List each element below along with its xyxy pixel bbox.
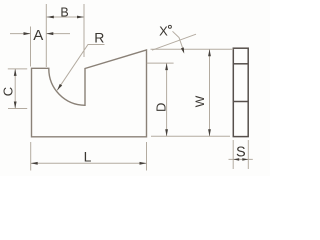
dim A/B shared extension line [45, 4, 47, 67]
svg-text:S: S [236, 144, 246, 160]
dim L arrowhead right [140, 162, 147, 165]
dim W: line [209, 49, 211, 136]
dim A arrowhead right (points left) [46, 32, 53, 35]
dim S: left extension line [232, 140, 234, 169]
R leader line [57, 45, 104, 91]
top extension line from peak to side view [151, 48, 234, 50]
X angle reference line [152, 34, 196, 50]
dim C arrowhead bottom (points down) [14, 102, 17, 109]
dim C: bottom extension line [8, 108, 27, 110]
dim W arrowhead bottom [208, 129, 211, 136]
dim A: left arrow tail [10, 33, 31, 35]
dim B arrowhead right [77, 16, 84, 19]
bottom baseline extension line [151, 135, 230, 137]
dim D: top extension line [147, 62, 174, 64]
svg-text:C: C [1, 87, 16, 96]
dim C: top extension line [8, 68, 27, 70]
main part outline [32, 50, 147, 137]
svg-text:L: L [84, 148, 92, 164]
dim B: line [46, 16, 84, 18]
side view rectangle [233, 48, 248, 136]
dim S: right extension line [247, 140, 249, 169]
X angle leader [173, 31, 183, 48]
svg-text:R: R [94, 30, 104, 46]
dim A: left extension line [30, 27, 32, 67]
svg-text:B: B [60, 6, 68, 20]
X angle leader arrowhead [181, 47, 184, 53]
dim C arrowhead top (points up) [14, 69, 17, 76]
side view divider 1 [233, 63, 248, 65]
dim S arrowhead right [242, 158, 248, 161]
dim C: line [14, 69, 16, 109]
arrowheads [14, 16, 249, 165]
dim L: right extension line [146, 142, 148, 171]
dim D arrowhead bottom [165, 129, 168, 136]
svg-text:A: A [33, 27, 43, 44]
dim W arrowhead top [208, 49, 211, 56]
R leader arrowhead [57, 84, 62, 90]
svg-text:W: W [193, 95, 207, 107]
dim D arrowhead top [165, 63, 168, 70]
dim D: line [166, 63, 168, 136]
svg-text:X: X [159, 24, 168, 39]
dim L arrowhead left [31, 162, 38, 165]
dim B arrowhead left [47, 16, 54, 19]
dim S: line [229, 158, 253, 160]
dim A: right arrow tail [46, 33, 70, 35]
dim L: left extension line [30, 142, 32, 171]
svg-text:D: D [154, 103, 169, 112]
dim L: line [31, 162, 147, 164]
dim B: right extension line [83, 4, 85, 57]
side view divider 2 [233, 101, 248, 103]
degree symbol [168, 25, 171, 28]
dim S arrowhead left [233, 158, 239, 161]
dim A arrowhead left (points right) [24, 32, 31, 35]
